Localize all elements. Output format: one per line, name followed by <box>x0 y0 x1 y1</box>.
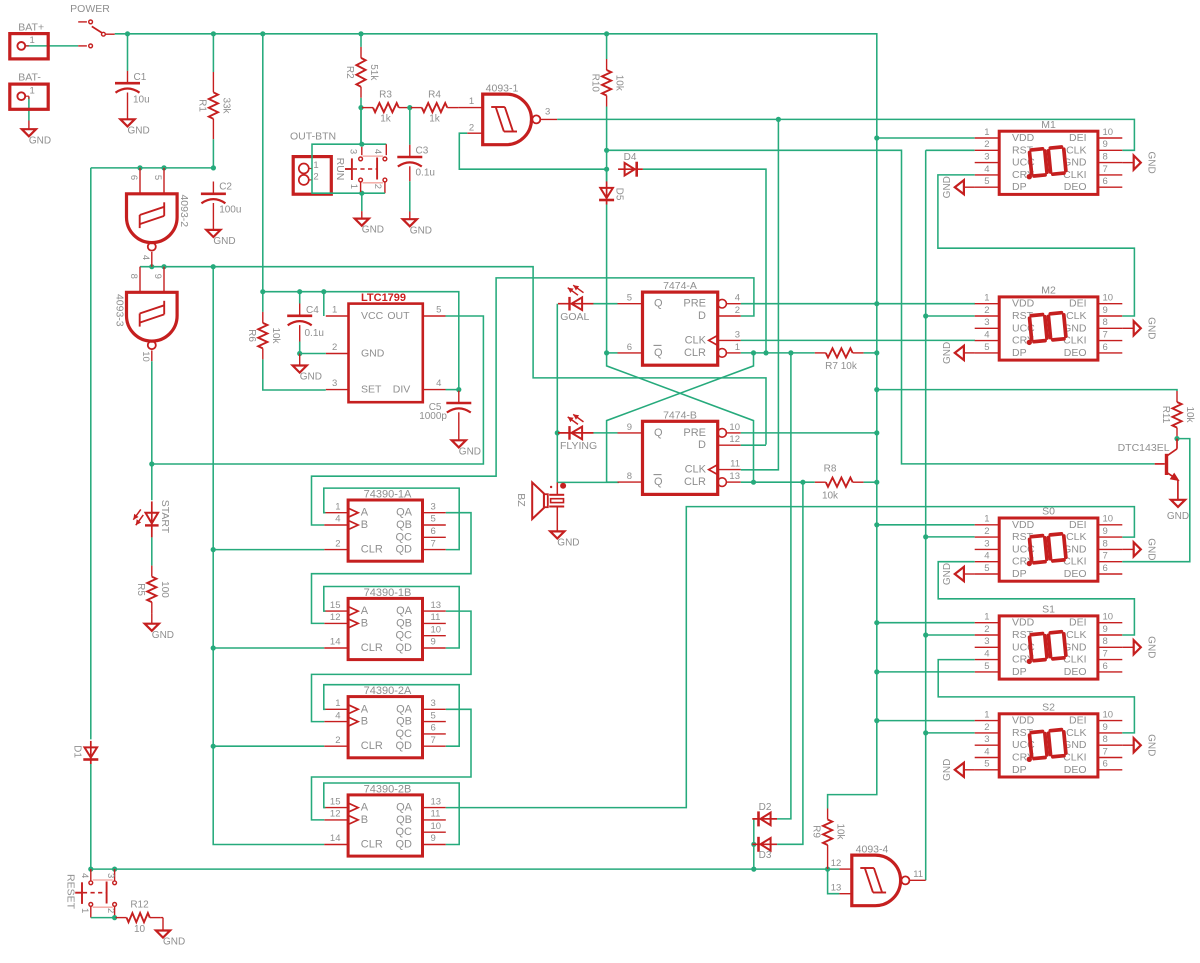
svg-text:4093-2: 4093-2 <box>178 194 190 227</box>
svg-text:Q: Q <box>654 298 663 310</box>
svg-text:B: B <box>361 617 368 629</box>
svg-text:R8: R8 <box>824 464 837 475</box>
svg-text:10u: 10u <box>133 94 150 105</box>
svg-text:QA: QA <box>396 703 413 715</box>
svg-text:DIV: DIV <box>393 384 411 396</box>
svg-text:7474-A: 7474-A <box>663 280 697 292</box>
svg-text:4: 4 <box>984 164 989 175</box>
svg-text:DEI: DEI <box>1069 715 1087 727</box>
svg-text:11: 11 <box>431 612 441 623</box>
svg-text:CLK: CLK <box>685 464 707 476</box>
svg-text:CLK: CLK <box>1066 144 1086 156</box>
svg-text:9: 9 <box>627 422 632 433</box>
svg-text:DEO: DEO <box>1064 347 1087 359</box>
svg-text:1000p: 1000p <box>419 411 447 422</box>
svg-text:D1: D1 <box>72 745 83 758</box>
svg-text:RUN: RUN <box>334 158 346 181</box>
svg-text:QA: QA <box>396 605 413 617</box>
svg-text:4: 4 <box>984 649 989 660</box>
svg-text:QA: QA <box>396 802 413 814</box>
svg-text:BAT+: BAT+ <box>18 22 44 34</box>
svg-text:QC: QC <box>396 728 413 740</box>
svg-text:9: 9 <box>1103 722 1108 733</box>
svg-text:6: 6 <box>627 342 632 353</box>
svg-text:SET: SET <box>361 384 382 396</box>
svg-text:10: 10 <box>729 422 740 433</box>
svg-text:11: 11 <box>730 459 740 470</box>
svg-text:B: B <box>361 519 368 531</box>
svg-text:10: 10 <box>1103 127 1114 138</box>
svg-text:VDD: VDD <box>1012 519 1035 531</box>
svg-text:4093-4: 4093-4 <box>856 844 889 856</box>
svg-text:13: 13 <box>729 471 740 482</box>
svg-text:DTC143EL: DTC143EL <box>1118 442 1170 454</box>
svg-text:10k: 10k <box>1184 406 1195 423</box>
svg-text:CLK: CLK <box>1066 629 1086 641</box>
svg-text:2: 2 <box>984 139 989 150</box>
svg-text:DEI: DEI <box>1069 132 1087 144</box>
svg-text:4093-1: 4093-1 <box>486 82 519 94</box>
svg-text:2: 2 <box>984 722 989 733</box>
svg-text:D5: D5 <box>614 188 625 201</box>
svg-text:13: 13 <box>431 600 442 611</box>
svg-text:0.1u: 0.1u <box>416 168 435 179</box>
svg-text:3: 3 <box>105 873 116 878</box>
svg-text:11: 11 <box>913 869 923 880</box>
svg-text:GND: GND <box>557 538 579 549</box>
svg-text:1: 1 <box>469 96 474 107</box>
svg-text:1: 1 <box>335 698 340 709</box>
svg-text:DP: DP <box>1012 181 1027 193</box>
svg-text:14: 14 <box>330 637 341 648</box>
svg-text:1: 1 <box>30 86 35 97</box>
svg-text:1: 1 <box>30 35 35 46</box>
svg-text:1: 1 <box>735 342 740 353</box>
svg-text:0.1u: 0.1u <box>305 328 324 339</box>
svg-text:1: 1 <box>348 184 359 189</box>
svg-text:12: 12 <box>831 858 842 869</box>
svg-text:GND: GND <box>942 759 953 781</box>
svg-text:74390-2A: 74390-2A <box>364 685 412 697</box>
svg-text:A: A <box>361 703 369 715</box>
svg-text:B: B <box>361 716 368 728</box>
svg-text:3: 3 <box>431 501 436 512</box>
svg-text:GND: GND <box>942 342 953 364</box>
svg-text:GND: GND <box>1167 511 1189 522</box>
svg-text:7: 7 <box>1103 649 1108 660</box>
svg-text:CLR: CLR <box>361 740 383 752</box>
svg-text:GND: GND <box>1146 151 1157 173</box>
svg-text:GND: GND <box>410 225 432 236</box>
svg-text:D3: D3 <box>759 850 772 861</box>
svg-text:DP: DP <box>1012 666 1027 678</box>
svg-text:S0: S0 <box>1042 506 1055 518</box>
svg-text:START: START <box>159 500 171 534</box>
svg-text:GND: GND <box>361 348 385 360</box>
svg-text:3: 3 <box>984 152 989 163</box>
svg-text:4: 4 <box>79 873 90 878</box>
svg-text:GND: GND <box>163 937 185 948</box>
svg-text:2: 2 <box>335 538 340 549</box>
svg-text:GOAL: GOAL <box>560 311 589 323</box>
svg-text:B: B <box>361 814 368 826</box>
svg-text:QD: QD <box>396 544 413 556</box>
svg-text:8: 8 <box>1103 152 1108 163</box>
svg-text:3: 3 <box>332 378 337 389</box>
svg-text:7: 7 <box>1103 551 1108 562</box>
svg-text:4: 4 <box>984 551 989 562</box>
svg-text:DP: DP <box>1012 568 1027 580</box>
svg-text:4: 4 <box>735 293 740 304</box>
svg-text:8: 8 <box>1103 636 1108 647</box>
svg-text:15: 15 <box>330 600 341 611</box>
svg-text:6: 6 <box>1103 342 1108 353</box>
svg-text:7: 7 <box>1103 746 1108 757</box>
svg-text:VCC: VCC <box>361 310 384 322</box>
svg-text:6: 6 <box>1103 563 1108 574</box>
svg-text:R12: R12 <box>130 900 149 911</box>
svg-text:3: 3 <box>984 636 989 647</box>
svg-text:6: 6 <box>128 175 139 180</box>
svg-text:10: 10 <box>1103 293 1114 304</box>
svg-text:4: 4 <box>372 149 383 154</box>
svg-text:6: 6 <box>1103 176 1108 187</box>
svg-text:2: 2 <box>735 305 740 316</box>
svg-text:10k: 10k <box>822 490 839 501</box>
svg-text:51k: 51k <box>368 64 379 81</box>
svg-text:2: 2 <box>984 305 989 316</box>
svg-text:PRE: PRE <box>683 427 706 439</box>
svg-text:1k: 1k <box>380 113 392 124</box>
svg-text:6: 6 <box>1103 759 1108 770</box>
svg-text:14: 14 <box>330 833 341 844</box>
svg-text:10k: 10k <box>614 75 625 92</box>
svg-text:QC: QC <box>396 630 413 642</box>
svg-text:6: 6 <box>431 723 436 734</box>
svg-text:3: 3 <box>431 698 436 709</box>
svg-text:1: 1 <box>984 293 989 304</box>
svg-text:9: 9 <box>1103 526 1108 537</box>
svg-text:10: 10 <box>431 821 442 832</box>
svg-text:R10: R10 <box>590 74 601 93</box>
svg-text:13: 13 <box>831 883 842 894</box>
svg-text:FLYING: FLYING <box>560 440 597 452</box>
svg-text:VDD: VDD <box>1012 617 1035 629</box>
svg-text:100u: 100u <box>219 204 241 215</box>
svg-text:10: 10 <box>1103 514 1114 525</box>
svg-text:S1: S1 <box>1042 604 1055 616</box>
svg-text:12: 12 <box>729 434 740 445</box>
svg-text:5: 5 <box>984 563 989 574</box>
svg-text:C2: C2 <box>219 181 232 192</box>
svg-text:5: 5 <box>436 305 441 316</box>
svg-text:5: 5 <box>431 710 436 721</box>
svg-text:C1: C1 <box>134 72 147 83</box>
svg-text:GND: GND <box>300 372 322 383</box>
svg-text:GND: GND <box>942 563 953 585</box>
svg-text:9: 9 <box>1103 624 1108 635</box>
svg-text:R4: R4 <box>428 90 441 101</box>
svg-text:5: 5 <box>984 759 989 770</box>
svg-text:10: 10 <box>1103 710 1114 721</box>
svg-text:CLR: CLR <box>361 839 383 851</box>
svg-text:GND: GND <box>1146 317 1157 339</box>
svg-text:4: 4 <box>335 710 340 721</box>
svg-text:QC: QC <box>396 826 413 838</box>
svg-text:1: 1 <box>984 612 989 623</box>
svg-text:CLK: CLK <box>1066 727 1086 739</box>
svg-text:R3: R3 <box>379 90 392 101</box>
svg-text:R5: R5 <box>135 583 146 596</box>
svg-text:QB: QB <box>396 617 412 629</box>
svg-text:Q: Q <box>654 427 663 439</box>
svg-text:R6: R6 <box>246 329 257 342</box>
svg-text:BAT-: BAT- <box>18 72 41 84</box>
svg-text:1: 1 <box>313 160 318 171</box>
svg-text:1k: 1k <box>429 113 441 124</box>
svg-text:QD: QD <box>396 740 413 752</box>
svg-text:7: 7 <box>1103 330 1108 341</box>
svg-text:7: 7 <box>431 538 436 549</box>
svg-text:GND: GND <box>1146 538 1157 560</box>
svg-text:12: 12 <box>330 612 341 623</box>
svg-text:1: 1 <box>79 908 90 913</box>
svg-text:3: 3 <box>984 317 989 328</box>
svg-text:QD: QD <box>396 839 413 851</box>
svg-text:33k: 33k <box>221 97 232 114</box>
svg-text:7: 7 <box>1103 164 1108 175</box>
svg-text:1: 1 <box>335 501 340 512</box>
svg-text:R11: R11 <box>1160 406 1171 424</box>
svg-text:4: 4 <box>984 330 989 341</box>
svg-text:GND: GND <box>128 125 150 136</box>
svg-text:R1: R1 <box>197 99 208 112</box>
svg-text:CLR: CLR <box>361 544 383 556</box>
svg-text:1: 1 <box>984 514 989 525</box>
svg-text:RESET: RESET <box>64 874 76 910</box>
svg-text:10: 10 <box>1103 612 1114 623</box>
svg-text:OUT-BTN: OUT-BTN <box>290 131 336 143</box>
svg-text:LTC1799: LTC1799 <box>361 292 406 304</box>
svg-text:CLK: CLK <box>685 334 707 346</box>
svg-text:4: 4 <box>984 746 989 757</box>
svg-text:3: 3 <box>984 734 989 745</box>
svg-text:13: 13 <box>431 796 442 807</box>
svg-text:D: D <box>698 439 706 451</box>
svg-text:CLR: CLR <box>361 642 383 654</box>
svg-text:3: 3 <box>735 329 740 340</box>
svg-text:2: 2 <box>469 122 474 133</box>
svg-text:S2: S2 <box>1042 701 1055 713</box>
svg-text:8: 8 <box>1103 538 1108 549</box>
svg-text:74390-1A: 74390-1A <box>364 489 412 501</box>
svg-text:R9: R9 <box>811 825 822 838</box>
svg-text:QB: QB <box>396 814 412 826</box>
svg-text:A: A <box>361 802 369 814</box>
svg-text:5: 5 <box>431 514 436 525</box>
svg-text:8: 8 <box>627 471 632 482</box>
svg-text:10k: 10k <box>835 823 846 840</box>
svg-text:DEI: DEI <box>1069 298 1087 310</box>
svg-text:1: 1 <box>332 305 337 316</box>
svg-text:GND: GND <box>362 225 384 236</box>
svg-text:74390-1B: 74390-1B <box>364 587 412 599</box>
svg-text:2: 2 <box>332 342 337 353</box>
svg-text:GND: GND <box>213 236 235 247</box>
svg-text:11: 11 <box>431 809 441 820</box>
svg-text:4: 4 <box>436 378 441 389</box>
svg-text:C3: C3 <box>416 146 429 157</box>
svg-text:VDD: VDD <box>1012 132 1035 144</box>
svg-text:QA: QA <box>396 507 413 519</box>
svg-text:D4: D4 <box>624 152 637 163</box>
svg-text:A: A <box>361 507 369 519</box>
svg-text:GND: GND <box>29 135 51 146</box>
svg-text:DP: DP <box>1012 347 1027 359</box>
svg-text:Q: Q <box>654 476 663 488</box>
svg-text:6: 6 <box>431 526 436 537</box>
svg-text:3: 3 <box>545 107 550 118</box>
svg-text:R7 10k: R7 10k <box>825 361 858 372</box>
svg-text:5: 5 <box>627 293 632 304</box>
svg-text:9: 9 <box>1103 305 1108 316</box>
svg-text:DP: DP <box>1012 764 1027 776</box>
svg-text:C4: C4 <box>306 305 319 316</box>
svg-text:CLR: CLR <box>684 476 706 488</box>
svg-text:5: 5 <box>984 661 989 672</box>
svg-text:15: 15 <box>330 796 341 807</box>
svg-text:PRE: PRE <box>683 298 706 310</box>
svg-text:2: 2 <box>335 735 340 746</box>
svg-text:9: 9 <box>1103 139 1108 150</box>
svg-text:DEO: DEO <box>1064 764 1087 776</box>
svg-text:QB: QB <box>396 519 412 531</box>
svg-text:DEO: DEO <box>1064 181 1087 193</box>
svg-text:CLR: CLR <box>684 347 706 359</box>
svg-text:7474-B: 7474-B <box>663 409 697 421</box>
svg-text:3: 3 <box>984 538 989 549</box>
svg-text:10k: 10k <box>270 327 281 344</box>
svg-text:8: 8 <box>1103 317 1108 328</box>
svg-text:A: A <box>361 605 369 617</box>
svg-text:BZ: BZ <box>515 493 527 507</box>
svg-text:7: 7 <box>431 735 436 746</box>
svg-text:4093-3: 4093-3 <box>114 294 126 327</box>
svg-text:CLK: CLK <box>1066 531 1086 543</box>
svg-text:10: 10 <box>140 351 151 362</box>
svg-text:D2: D2 <box>759 802 772 813</box>
svg-text:100: 100 <box>159 581 170 598</box>
svg-text:5: 5 <box>984 176 989 187</box>
svg-text:9: 9 <box>431 833 436 844</box>
svg-text:QB: QB <box>396 716 412 728</box>
svg-text:2: 2 <box>984 624 989 635</box>
svg-text:DEI: DEI <box>1069 617 1087 629</box>
svg-text:10: 10 <box>431 624 442 635</box>
svg-text:1: 1 <box>984 127 989 138</box>
svg-text:6: 6 <box>1103 661 1108 672</box>
svg-text:GND: GND <box>1146 734 1157 756</box>
svg-text:8: 8 <box>1103 734 1108 745</box>
svg-text:2: 2 <box>984 526 989 537</box>
svg-text:POWER: POWER <box>70 3 110 15</box>
svg-text:9: 9 <box>431 637 436 648</box>
svg-text:4: 4 <box>335 514 340 525</box>
svg-text:QC: QC <box>396 531 413 543</box>
svg-text:9: 9 <box>152 274 163 279</box>
svg-text:3: 3 <box>347 149 358 154</box>
svg-text:VDD: VDD <box>1012 715 1035 727</box>
svg-text:GND: GND <box>459 446 481 457</box>
svg-text:12: 12 <box>330 809 341 820</box>
svg-text:8: 8 <box>128 274 139 279</box>
svg-text:OUT: OUT <box>387 310 410 322</box>
svg-text:M2: M2 <box>1041 285 1056 297</box>
svg-text:D: D <box>698 310 706 322</box>
svg-text:2: 2 <box>313 171 318 182</box>
svg-text:GND: GND <box>1146 636 1157 658</box>
svg-text:DEO: DEO <box>1064 666 1087 678</box>
svg-text:CLK: CLK <box>1066 310 1086 322</box>
svg-text:VDD: VDD <box>1012 298 1035 310</box>
svg-text:10: 10 <box>134 924 146 935</box>
svg-text:1: 1 <box>984 710 989 721</box>
svg-text:2: 2 <box>372 184 383 189</box>
svg-text:Q: Q <box>654 347 663 359</box>
svg-text:GND: GND <box>942 176 953 198</box>
svg-text:5: 5 <box>984 342 989 353</box>
svg-text:R2: R2 <box>344 66 355 79</box>
svg-text:QD: QD <box>396 642 413 654</box>
svg-text:GND: GND <box>152 630 174 641</box>
svg-text:DEI: DEI <box>1069 519 1087 531</box>
svg-text:5: 5 <box>152 175 163 180</box>
svg-text:DEO: DEO <box>1064 568 1087 580</box>
svg-text:M1: M1 <box>1041 119 1056 131</box>
svg-text:4: 4 <box>140 255 151 260</box>
svg-text:74390-2B: 74390-2B <box>364 784 412 796</box>
